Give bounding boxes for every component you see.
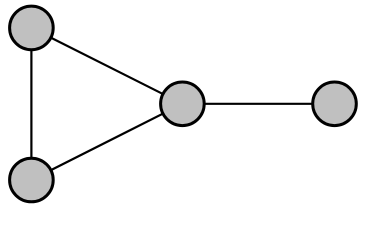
wire edge C-D (right horizontal) xyxy=(182,103,334,105)
wire edge A-B (left vertical) xyxy=(30,28,32,180)
node D (right vertex) xyxy=(313,82,357,126)
wire edge B-C (lower diagonal) xyxy=(31,104,182,180)
node B (bottom-left vertex) xyxy=(10,158,54,202)
wire edge A-C (upper diagonal) xyxy=(31,28,182,104)
node C (middle vertex) xyxy=(161,82,205,126)
node A (top-left vertex) xyxy=(10,6,54,50)
